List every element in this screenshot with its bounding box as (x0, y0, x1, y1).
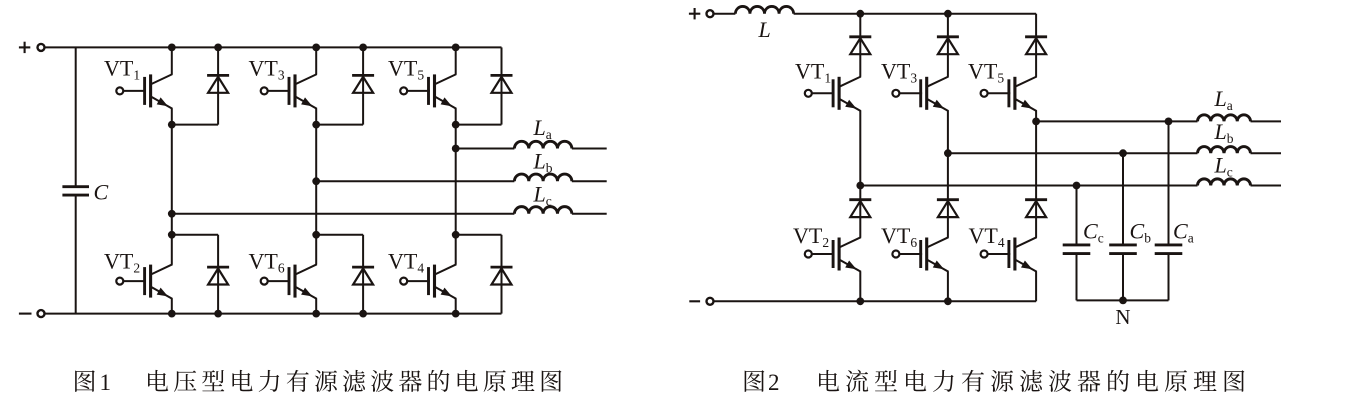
leg 2 wires fig1 (315, 47, 317, 74)
positive terminal fig2 (707, 10, 714, 17)
minus sign fig1 (19, 313, 32, 315)
phase b wire fig2 (948, 152, 1198, 154)
negative terminal fig1 (38, 310, 45, 317)
svg-text:C: C (94, 180, 109, 205)
transistor VT5 (400, 74, 456, 109)
transistor VT3 fig2 (892, 77, 948, 112)
svg-text:1: 1 (100, 370, 112, 395)
transistor VT3 (261, 74, 317, 109)
left DC link wire (75, 47, 77, 186)
transistor VT4 (400, 264, 456, 299)
transistor VT1 (116, 74, 172, 109)
series diode lower leg 3 (1025, 200, 1047, 217)
inductor L dc (735, 6, 793, 13)
junction dots leg 2 fig1 (312, 44, 320, 52)
phase c wire fig2 (860, 185, 1197, 187)
capacitor Cc wires (1076, 186, 1078, 245)
diode D1 (207, 75, 229, 92)
transistor VT2 fig2 (805, 237, 861, 272)
transistor VT2 (116, 264, 172, 299)
freewheel diode wire lower leg 2 (362, 235, 364, 314)
inductor Lb fig1 (514, 174, 571, 181)
transistor VT6 (261, 264, 317, 299)
capacitor Cb (1109, 245, 1137, 254)
bottom rail fig2 (714, 300, 1037, 302)
inductor La fig1 (514, 141, 571, 148)
svg-text:L: L (758, 17, 771, 42)
diode D5 (491, 75, 513, 92)
diode D3 (352, 75, 374, 92)
diode D4 (491, 267, 513, 284)
transistor VT1 fig2 (805, 77, 861, 112)
plus sign fig2 (689, 13, 700, 15)
transistor VT4 fig2 (981, 237, 1037, 272)
series diode upper leg 1 (849, 37, 871, 54)
junction dots leg 3 fig1 (452, 44, 460, 52)
series diode upper leg 3 (1025, 37, 1047, 54)
capacitor C (62, 187, 89, 195)
leg 1 wires fig1 (171, 47, 173, 74)
bottom DC rail fig1 (45, 313, 502, 315)
transistor VT5 fig2 (981, 77, 1037, 112)
diode D6 (352, 267, 374, 284)
transistor VT6 fig2 (892, 237, 948, 272)
svg-text:N: N (1115, 305, 1130, 329)
phase a wire fig2 (1036, 120, 1197, 122)
top DC rail fig1 (45, 46, 502, 48)
capacitor Cc (1063, 245, 1091, 254)
neutral bus wire (1077, 299, 1169, 301)
leg 1 wires fig2 (859, 14, 861, 77)
freewheel diode wire lower leg 1 (217, 235, 219, 314)
diode D2 (207, 267, 229, 284)
capacitor Ca (1155, 245, 1183, 254)
freewheel diode wire upper leg 1 (217, 47, 219, 124)
capacitor Cb wires (1122, 153, 1124, 245)
series diode upper leg 2 (937, 37, 959, 54)
junction dots leg 2 fig2 (944, 10, 952, 18)
inductor Lc fig2 (1198, 179, 1251, 186)
inductor La fig2 (1198, 115, 1251, 122)
svg-text:2: 2 (768, 370, 780, 395)
phase b output wire fig1 (316, 180, 514, 182)
top rail wire fig2 (714, 13, 736, 15)
phase a output wire fig1 (456, 148, 515, 150)
junction dots leg 1 fig2 (856, 10, 864, 18)
minus sign fig2 (689, 300, 700, 302)
leg 3 wires fig2 (1035, 14, 1037, 77)
freewheel diode wire upper leg 3 (501, 47, 503, 124)
negative terminal fig2 (707, 298, 714, 305)
leg 3 wires fig1 (455, 47, 457, 74)
caption fig1 (75, 370, 561, 395)
inductor Lb fig2 (1198, 147, 1251, 154)
leg 2 wires fig2 (947, 14, 949, 77)
junction dots leg 1 fig1 (168, 44, 176, 52)
caption fig2 (745, 370, 1245, 395)
capacitor Ca wires (1168, 121, 1170, 244)
freewheel diode wire upper leg 2 (362, 47, 364, 124)
series diode lower leg 2 (937, 200, 959, 217)
phase c output wire fig1 (172, 213, 515, 215)
positive terminal fig1 (38, 44, 45, 51)
plus sign fig1 (19, 46, 30, 48)
freewheel diode wire lower leg 3 (501, 235, 503, 314)
series diode lower leg 1 (849, 200, 871, 217)
inductor Lc fig1 (514, 207, 571, 214)
node N (1119, 297, 1127, 305)
